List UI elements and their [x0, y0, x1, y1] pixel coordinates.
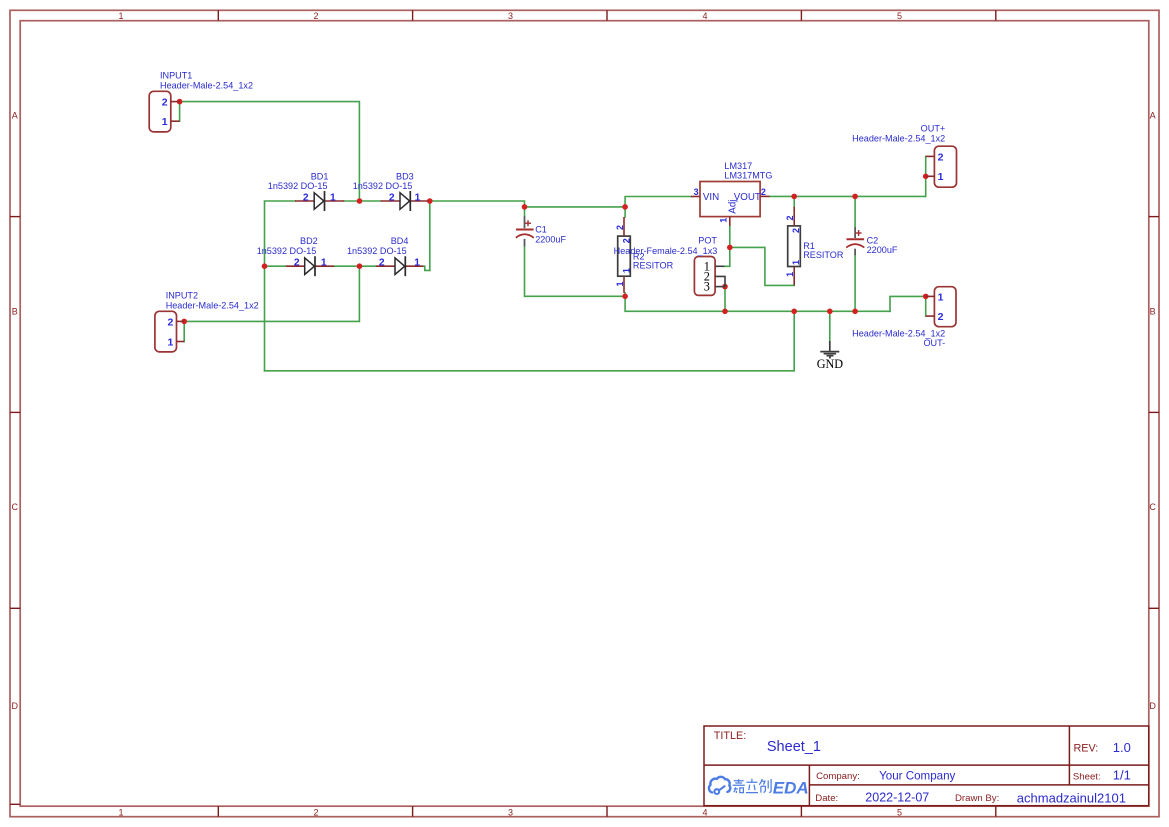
node OUT+ pin1 [923, 174, 929, 180]
svg-text:Header-Male-2.54_1x2: Header-Male-2.54_1x2 [160, 80, 253, 90]
node bridge minus left [262, 263, 268, 269]
svg-text:5: 5 [897, 11, 902, 21]
svg-text:Header-Female-2.54_1x3: Header-Female-2.54_1x3 [614, 246, 718, 256]
svg-text:1: 1 [785, 272, 795, 277]
wire C1 top stub [524, 207, 526, 217]
JUNCTION DOTS [177, 99, 929, 324]
potentiometer POT (header-female 1x3) [694, 257, 725, 296]
svg-text:2: 2 [785, 215, 795, 220]
svg-text:1n5392 DO-15: 1n5392 DO-15 [353, 181, 413, 191]
svg-text:REV:: REV: [1074, 743, 1099, 755]
diode BD3 [381, 191, 429, 211]
wire BD2 cathode to node [334, 265, 359, 267]
svg-text:2: 2 [167, 316, 173, 328]
node R2 top [622, 204, 628, 210]
svg-text:5: 5 [897, 807, 902, 817]
node bridge AC1 top [357, 198, 363, 204]
node R1 top [791, 194, 797, 200]
wire INPUT2 pin2 to bridge bottom node [184, 266, 359, 321]
svg-text:INPUT2: INPUT2 [166, 291, 198, 301]
svg-text:C: C [1149, 502, 1156, 512]
resistor R1 (header-female) [788, 207, 801, 286]
node C1 top [522, 204, 528, 210]
svg-text:RESITOR: RESITOR [803, 250, 844, 260]
svg-text:D: D [1149, 701, 1156, 711]
svg-text:2: 2 [313, 807, 318, 817]
svg-text:3: 3 [508, 11, 513, 21]
svg-text:B: B [12, 306, 18, 316]
svg-text:1: 1 [938, 291, 944, 303]
svg-text:C2: C2 [867, 235, 879, 245]
svg-text:OUT-: OUT- [923, 338, 945, 348]
svg-text:4: 4 [702, 807, 707, 817]
capacitor C1 [516, 216, 534, 246]
svg-text:2: 2 [379, 258, 385, 269]
node POT on rail [722, 309, 728, 315]
column tick 3 top [606, 10, 608, 20]
svg-text:BD1: BD1 [311, 171, 329, 181]
wire OUT- pin2 jumper [925, 296, 927, 316]
wire OUT+ riser [925, 156, 927, 196]
wire R2 bottom to ground rail [625, 293, 890, 311]
svg-text:GND: GND [817, 357, 844, 371]
wire Adj node to R1 bottom [730, 247, 794, 285]
svg-text:2200uF: 2200uF [867, 245, 898, 255]
column tick 3 bottom [606, 806, 608, 817]
svg-text:BD2: BD2 [300, 236, 318, 246]
column tick 5 bottom [995, 806, 997, 817]
column numbers bottom [118, 807, 902, 817]
connector OUT+ [926, 146, 957, 187]
svg-text:INPUT1: INPUT1 [160, 71, 192, 81]
capacitor C2 [846, 227, 864, 255]
wire C2 bottom to rail [854, 255, 856, 311]
svg-text:D: D [12, 701, 19, 711]
node Adj junction [727, 245, 733, 251]
svg-text:achmadzainul2101: achmadzainul2101 [1017, 790, 1126, 805]
svg-text:2: 2 [389, 192, 395, 203]
TITLEBLOCK [704, 726, 1149, 806]
wire GND stem green [829, 311, 831, 341]
wire C1 to R2 top [525, 206, 626, 208]
svg-text:LM317: LM317 [724, 161, 752, 171]
svg-text:RESITOR: RESITOR [633, 260, 674, 270]
wire top-left corner to BD1 anode [265, 201, 296, 371]
svg-text:3: 3 [508, 807, 513, 817]
node bridge AC2 bottom [357, 263, 363, 269]
svg-text:1: 1 [321, 258, 327, 269]
svg-text:2: 2 [294, 258, 300, 269]
svg-text:1: 1 [167, 336, 173, 348]
svg-text:Drawn By:: Drawn By: [955, 793, 999, 804]
svg-text:1: 1 [330, 192, 336, 203]
company/date row divider [809, 784, 1148, 786]
svg-text:1: 1 [118, 807, 123, 817]
svg-text:EDA: EDA [773, 778, 809, 797]
svg-text:Sheet:: Sheet: [1073, 771, 1101, 782]
wire BD4 cathode jog [423, 266, 430, 270]
diode BD4 [376, 256, 424, 276]
svg-text:1: 1 [162, 116, 168, 128]
svg-text:Sheet_1: Sheet_1 [767, 739, 821, 755]
title block outline [704, 726, 1149, 806]
svg-text:2: 2 [615, 225, 625, 230]
svg-text:2: 2 [761, 187, 766, 197]
wire bottom return long [265, 311, 795, 371]
svg-text:Company:: Company: [816, 771, 860, 782]
svg-text:BD3: BD3 [396, 171, 414, 181]
column tick 4 bottom [800, 806, 802, 817]
svg-text:VIN: VIN [703, 192, 719, 203]
svg-text:BD4: BD4 [391, 236, 409, 246]
svg-text:OUT+: OUT+ [921, 124, 946, 134]
node INPUT1 pins [177, 99, 183, 105]
regulator U1 LM317 [691, 182, 770, 226]
wire INPUT1 pin1 jumper [179, 102, 181, 122]
column numbers top [118, 11, 902, 21]
column tick 2 top [412, 10, 414, 20]
row tick C/D right [1149, 607, 1159, 609]
node C2 top [852, 194, 858, 200]
node bridge plus [427, 198, 433, 204]
wire R2 top stub [624, 207, 626, 217]
svg-text:LM317MTG: LM317MTG [724, 171, 772, 181]
svg-text:1.0: 1.0 [1113, 740, 1131, 755]
wire rectifier output to C1 [430, 201, 525, 207]
connector INPUT2 [155, 311, 184, 352]
wire node to BD4 anode [360, 265, 376, 267]
row letters left [12, 110, 19, 711]
svg-text:2: 2 [303, 192, 309, 203]
node POT pins 2-3 [722, 284, 728, 290]
svg-text:2: 2 [938, 311, 944, 323]
logo cell divider [808, 765, 810, 806]
column tick 4 top [800, 10, 802, 20]
svg-text:Date:: Date: [815, 793, 838, 804]
column tick 5 top [995, 10, 997, 20]
svg-text:3: 3 [704, 280, 710, 294]
svg-text:B: B [1150, 306, 1156, 316]
connector OUT- [926, 287, 956, 327]
svg-text:1: 1 [118, 11, 123, 21]
node C2 on rail [852, 309, 858, 315]
wire POT wiper node to rail [724, 287, 726, 312]
row tick B/C right [1149, 411, 1159, 413]
wire BD3 node down to BD4 jog [429, 201, 431, 270]
node R2 bottom [622, 294, 628, 300]
svg-text:POT: POT [698, 236, 717, 246]
WIRES [180, 102, 926, 371]
node INPUT2 pins [181, 319, 187, 325]
svg-text:TITLE:: TITLE: [714, 730, 746, 742]
wire POT pin1 to Adj node [724, 247, 729, 266]
svg-text:1: 1 [415, 192, 421, 203]
node OUT- pin1 [923, 294, 929, 300]
node GND on rail [827, 309, 833, 315]
diode BD2 [286, 256, 334, 276]
wire BD1 cathode to node [344, 200, 359, 202]
row letters right [1149, 110, 1156, 711]
svg-text:3: 3 [694, 187, 699, 197]
svg-text:A: A [1150, 110, 1156, 120]
svg-text:A: A [12, 110, 18, 120]
wire INPUT1 pin2 to bridge top node [180, 102, 360, 201]
wire INPUT2 pin1 jumper [183, 321, 185, 341]
wire BD2 anode stub [265, 265, 286, 267]
wire R2 top to LM317 VIN [625, 197, 691, 207]
svg-text:1: 1 [414, 258, 420, 269]
logo JLC EDA cloud [709, 777, 730, 794]
svg-text:Header-Male-2.54_1x2: Header-Male-2.54_1x2 [166, 300, 259, 310]
ground symbol [820, 341, 839, 358]
svg-text:2022-12-07: 2022-12-07 [865, 791, 929, 805]
svg-text:Your Company: Your Company [879, 769, 955, 782]
svg-text:1n5392 DO-15: 1n5392 DO-15 [257, 246, 317, 256]
node return on rail [791, 309, 797, 315]
svg-text:1: 1 [718, 218, 728, 223]
wire node to BD3 anode [360, 200, 381, 202]
svg-text:2: 2 [313, 11, 318, 21]
svg-text:1: 1 [791, 260, 801, 265]
row tick C/D left [10, 607, 20, 609]
svg-text:Adj: Adj [727, 200, 738, 214]
svg-text:C: C [12, 502, 19, 512]
svg-text:2: 2 [938, 151, 944, 163]
svg-text:2200uF: 2200uF [535, 235, 566, 245]
svg-text:2: 2 [791, 228, 801, 233]
wire LM317 VOUT rail [769, 195, 925, 197]
svg-text:1n5392 DO-15: 1n5392 DO-15 [268, 181, 328, 191]
connector INPUT1 [149, 91, 179, 132]
row tick D bottom left [10, 803, 20, 805]
row tick A/B left [10, 216, 20, 218]
wire LM317 Adj to node [729, 226, 731, 248]
svg-text:C1: C1 [535, 225, 547, 235]
resistor R2 (header-female) [618, 217, 631, 293]
row tick A/B right [1149, 216, 1159, 218]
svg-text:1: 1 [615, 281, 625, 286]
wire BD3 cathode to node [428, 200, 430, 202]
svg-text:1n5392 DO-15: 1n5392 DO-15 [347, 246, 407, 256]
svg-text:2: 2 [162, 97, 168, 109]
svg-text:2: 2 [621, 238, 631, 243]
svg-text:1: 1 [938, 171, 944, 183]
svg-text:1: 1 [621, 268, 631, 273]
wire rail to OUT- [890, 296, 926, 311]
row tick B/C left [10, 411, 20, 413]
wire C2 top stub [854, 196, 856, 227]
title row divider [704, 764, 1149, 766]
wire C1 bottom to rail [525, 246, 626, 296]
wire R1 top stub [793, 196, 795, 206]
svg-text:Header-Male-2.54_1x2: Header-Male-2.54_1x2 [852, 134, 945, 144]
svg-text:1/1: 1/1 [1113, 768, 1131, 783]
logo text 嘉立创EDA [733, 778, 809, 797]
svg-text:4: 4 [702, 11, 707, 21]
column tick 1 bottom [217, 806, 219, 817]
column tick 1 top [217, 10, 219, 20]
diode BD1 [295, 191, 344, 211]
rev/sheet cell divider [1068, 726, 1070, 785]
column tick 2 bottom [412, 806, 414, 817]
